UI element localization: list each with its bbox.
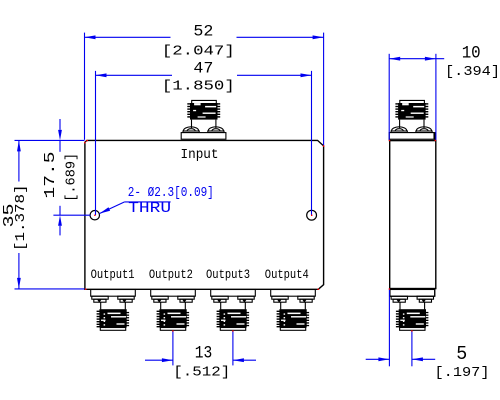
output connector 3 xyxy=(211,290,256,331)
dim 17.5 dimension line and outside arrows xyxy=(59,119,61,130)
dim 47 dimension line xyxy=(96,74,173,76)
front view body outline xyxy=(85,140,324,289)
svg-text:Input: Input xyxy=(181,147,219,163)
side view bottom connector xyxy=(390,290,435,331)
output connector 4 xyxy=(271,290,316,331)
red endpoint dot top-left chamfer xyxy=(84,142,85,144)
svg-text:47: 47 xyxy=(193,59,213,77)
mounting hole right xyxy=(307,210,317,220)
dim 5 dimension line with outside arrows xyxy=(366,358,390,360)
red endpoint dot hole right center xyxy=(311,215,312,216)
dim 10 dimension line xyxy=(389,58,444,60)
svg-text:Output3: Output3 xyxy=(206,268,250,282)
svg-text:10: 10 xyxy=(462,44,481,64)
input connector J1 (front view top) xyxy=(181,100,226,139)
svg-text:17.5: 17.5 xyxy=(42,152,59,199)
leader line for thru holes xyxy=(125,201,171,203)
dim 47 extension lines xyxy=(95,71,97,215)
side view bottom flange xyxy=(391,289,435,297)
dim 35 extension lines xyxy=(15,139,85,141)
red endpoint dot ext start output3 xyxy=(232,330,233,331)
dim 10 extension lines xyxy=(388,54,390,140)
svg-text:Output1: Output1 xyxy=(91,268,135,282)
svg-text:[1.850]: [1.850] xyxy=(162,79,235,95)
red endpoint dot hole left center xyxy=(94,215,95,216)
side view top connector xyxy=(389,100,434,139)
red endpoint dot top-right corner xyxy=(323,145,324,147)
dim 17.5 lower extension line xyxy=(53,214,90,216)
svg-text:2- Ø2.3[0.09]: 2- Ø2.3[0.09] xyxy=(128,185,214,201)
dim 13 dimension line with outside arrows xyxy=(145,359,173,361)
svg-text:[1.378]: [1.378] xyxy=(13,185,29,252)
red endpoint dot ext start output2 xyxy=(172,330,173,331)
svg-text:Output4: Output4 xyxy=(265,268,309,282)
svg-text:THRU: THRU xyxy=(128,200,171,217)
side view top flange xyxy=(390,133,436,141)
dim 13 extension lines xyxy=(172,331,174,366)
svg-text:13: 13 xyxy=(195,343,213,363)
dim 35 dimension line xyxy=(18,140,20,181)
side view body outline xyxy=(390,141,436,289)
red endpoint dot ext start side connector xyxy=(411,330,412,331)
dim 52 dimension line xyxy=(85,36,171,38)
red endpoint dot side bottom left xyxy=(389,288,390,289)
red endpoint dot side flange right xyxy=(435,140,436,141)
red endpoint dot bottom-left corner xyxy=(85,289,87,290)
svg-text:[.512]: [.512] xyxy=(173,365,230,381)
red endpoint dot top-left corner xyxy=(86,140,88,141)
output connector 2 xyxy=(151,290,196,331)
svg-text:[.197]: [.197] xyxy=(435,365,490,381)
dim 52 extension lines xyxy=(84,33,86,140)
red endpoint dot bottom-right corner xyxy=(318,289,320,290)
mounting hole left xyxy=(90,211,99,220)
dim 5 extension lines xyxy=(388,289,390,366)
svg-text:[.689]: [.689] xyxy=(63,153,79,202)
svg-text:[2.047]: [2.047] xyxy=(162,43,235,59)
svg-text:52: 52 xyxy=(193,22,213,40)
svg-text:Output2: Output2 xyxy=(149,268,193,282)
output connector 1 xyxy=(91,290,136,331)
svg-text:[.394]: [.394] xyxy=(445,64,500,80)
red endpoint dot side flange left xyxy=(389,140,390,141)
svg-text:5: 5 xyxy=(456,343,467,365)
